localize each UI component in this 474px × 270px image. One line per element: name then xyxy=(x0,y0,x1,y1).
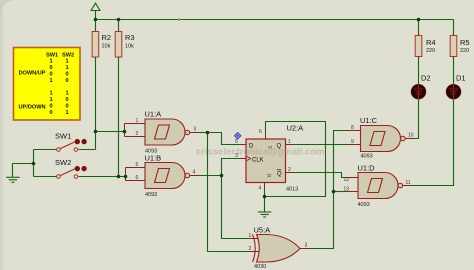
power symbol VDD xyxy=(91,3,100,19)
resistor R5 xyxy=(450,20,469,57)
wire VDD top power rail xyxy=(96,19,454,21)
wire switch common vertical xyxy=(33,150,35,177)
junction node B (R3/SW2) xyxy=(117,175,121,179)
node marker on rail xyxy=(178,18,181,21)
svg-text:4093: 4093 xyxy=(361,154,373,160)
wire LED D1 to U1:D output xyxy=(411,99,454,186)
svg-text:11: 11 xyxy=(406,180,411,186)
svg-text:1: 1 xyxy=(65,59,68,65)
nand gate U1:B (4093) xyxy=(126,154,200,199)
svg-text:U2:A: U2:A xyxy=(287,124,304,133)
wire SW1 riser to node A xyxy=(95,132,97,150)
svg-text:CLK: CLK xyxy=(252,157,264,163)
svg-text:1: 1 xyxy=(65,110,68,116)
svg-text:1: 1 xyxy=(49,97,52,103)
wire node J2 up to U2:A CLK xyxy=(222,159,241,176)
svg-text:U1:B: U1:B xyxy=(145,154,162,163)
wire R5 to LED D1 xyxy=(453,57,455,85)
svg-text:4030: 4030 xyxy=(254,264,266,270)
svg-text:U1:C: U1:C xyxy=(360,116,378,125)
wire LED D2 to U1:C output xyxy=(414,99,419,139)
node marker blue diamond xyxy=(235,133,241,139)
svg-text:3: 3 xyxy=(305,243,308,249)
junction node X xyxy=(332,190,336,194)
svg-text:0: 0 xyxy=(49,65,52,71)
svg-text:0: 0 xyxy=(65,78,68,84)
svg-text:R5: R5 xyxy=(460,38,470,47)
junction node A (R2/SW1) xyxy=(94,130,98,134)
junction on rail at R4 xyxy=(417,18,421,22)
svg-text:SW2: SW2 xyxy=(55,158,71,167)
svg-text:U1:D: U1:D xyxy=(358,164,376,173)
svg-text:Q: Q xyxy=(277,172,282,178)
svg-text:220: 220 xyxy=(460,48,469,54)
svg-text:3: 3 xyxy=(194,127,197,133)
junction at U1:B input tie xyxy=(124,175,128,179)
D flip-flop U2:A (4013) xyxy=(235,124,303,193)
svg-text:1: 1 xyxy=(136,118,139,124)
svg-text:R: R xyxy=(265,174,271,178)
wire node A to U1:A inputs xyxy=(96,131,125,133)
svg-text:9: 9 xyxy=(351,139,354,145)
svg-text:4: 4 xyxy=(193,170,196,176)
nand gate U1:C (4093) xyxy=(348,116,414,160)
svg-text:0: 0 xyxy=(65,104,68,110)
svg-text:2: 2 xyxy=(136,131,139,137)
svg-text:1: 1 xyxy=(65,65,68,71)
svg-text:1: 1 xyxy=(288,139,291,145)
svg-text:U5:A: U5:A xyxy=(254,226,271,235)
svg-text:1: 1 xyxy=(49,59,52,65)
wire node J1 to U2:A D input xyxy=(208,133,241,145)
svg-text:R4: R4 xyxy=(426,38,436,47)
wire R4 to LED D2 xyxy=(418,57,420,85)
svg-text:U1:A: U1:A xyxy=(145,110,162,119)
nand gate U1:D (4093) xyxy=(344,164,411,209)
resistor R2 xyxy=(92,20,111,58)
svg-text:6: 6 xyxy=(259,129,262,135)
wire U5:A output up to U1:C pin 8 xyxy=(309,131,348,249)
junction on rail at R2 xyxy=(94,18,98,22)
svg-text:6: 6 xyxy=(136,175,139,181)
switch SW1 xyxy=(34,132,96,152)
junction node J1 xyxy=(206,131,210,135)
svg-text:1: 1 xyxy=(49,91,52,97)
svg-text:DOWN/UP: DOWN/UP xyxy=(19,71,46,77)
svg-text:220: 220 xyxy=(426,48,435,54)
resistor R3 xyxy=(115,20,134,58)
svg-text:0: 0 xyxy=(49,104,52,110)
svg-text:10: 10 xyxy=(408,133,414,139)
svg-text:1: 1 xyxy=(65,91,68,97)
svg-text:5: 5 xyxy=(235,139,238,145)
wire U2:A R to ground node xyxy=(264,190,266,197)
wire U1:A output to node J1 xyxy=(199,132,208,134)
svg-text:crisselectronica@gmail.com: crisselectronica@gmail.com xyxy=(196,147,325,158)
svg-text:0: 0 xyxy=(49,72,52,78)
truth table annotation box xyxy=(14,48,81,121)
wire U2:A S to ground loop xyxy=(265,122,326,197)
svg-text:10k: 10k xyxy=(125,44,134,50)
svg-text:1: 1 xyxy=(249,233,252,239)
svg-text:1: 1 xyxy=(49,78,52,84)
svg-text:4013: 4013 xyxy=(286,187,298,193)
svg-text:4093: 4093 xyxy=(145,192,157,198)
svg-text:4: 4 xyxy=(259,186,262,192)
junction at U2:A R/ground xyxy=(263,195,267,199)
svg-text:0: 0 xyxy=(65,97,68,103)
svg-text:0: 0 xyxy=(65,72,68,78)
LED D1 xyxy=(446,74,465,100)
ground below U2:A xyxy=(258,197,271,218)
svg-text:8: 8 xyxy=(351,125,354,131)
ground left xyxy=(6,164,34,183)
svg-text:0: 0 xyxy=(49,110,52,116)
junction on rail at R3 xyxy=(117,18,121,22)
wire node J2 down to U5:A pin 1 xyxy=(222,176,250,239)
svg-text:10k: 10k xyxy=(102,44,111,50)
svg-text:4093: 4093 xyxy=(358,202,370,208)
junction at ground tap xyxy=(32,162,36,166)
wire node J1 down to U5:A pin 2 xyxy=(208,133,250,252)
junction at U1:A input tie xyxy=(123,130,127,134)
xor gate U5:A (4030) xyxy=(249,226,310,270)
switch SW2 xyxy=(34,158,126,178)
nand gate U1:A (4093) xyxy=(125,110,200,155)
resistor R4 xyxy=(415,20,435,57)
svg-text:D2: D2 xyxy=(421,74,431,83)
junction node J2 xyxy=(220,174,224,178)
svg-text:2: 2 xyxy=(288,167,291,173)
svg-text:UP/DOWN: UP/DOWN xyxy=(19,105,46,111)
svg-text:R2: R2 xyxy=(102,33,112,42)
wire R2 bottom to SW1 node xyxy=(95,57,97,132)
wire U1:B output to node J2 xyxy=(199,175,222,177)
LED D2 xyxy=(411,74,430,100)
svg-text:R3: R3 xyxy=(125,33,135,42)
svg-text:2: 2 xyxy=(249,246,252,252)
svg-text:12: 12 xyxy=(344,177,350,183)
svg-text:5: 5 xyxy=(136,162,139,168)
svg-text:SW1: SW1 xyxy=(55,132,71,141)
svg-text:D1: D1 xyxy=(456,74,466,83)
wire U2:A Q to U1:C pin 9 xyxy=(292,144,349,146)
wire node X to U1:D pin 13 xyxy=(334,191,346,193)
wire R3 bottom to SW2 node xyxy=(118,57,120,177)
wire U2:A Qbar to U1:D pin 12 xyxy=(292,173,346,178)
